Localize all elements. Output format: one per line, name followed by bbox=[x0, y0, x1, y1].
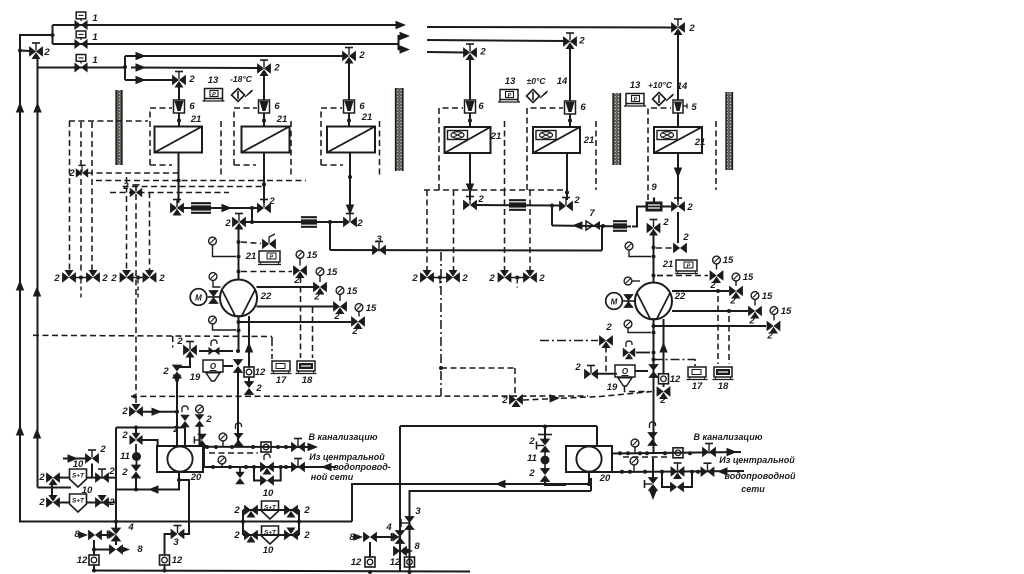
node drain r n2 bbox=[638, 451, 642, 455]
label 2 p1top bbox=[224, 218, 231, 229]
svg-text:S+T: S+T bbox=[264, 505, 277, 512]
label 2 t2b bbox=[528, 468, 535, 479]
svg-text:15: 15 bbox=[781, 306, 792, 317]
svg-text:10: 10 bbox=[263, 488, 274, 499]
node drain r n1 bbox=[626, 451, 630, 455]
dashed cross 368 bbox=[441, 367, 515, 369]
node drain r n3 bbox=[645, 451, 649, 455]
valve 2 bypass bbox=[671, 483, 684, 492]
node swr node bbox=[587, 482, 591, 486]
valve 2 city l1 bbox=[261, 454, 274, 475]
valve 2 three-way u5 bbox=[564, 33, 577, 49]
wire cross-connect riser left bbox=[329, 222, 331, 250]
valve 2 dd-rail right bbox=[600, 336, 613, 348]
separator 19 b bbox=[615, 365, 635, 386]
svg-text:Из центральной: Из центральной bbox=[309, 452, 385, 462]
gauge city left bbox=[218, 456, 226, 467]
valve 8 a left bbox=[79, 531, 102, 540]
node p1 stack n1 bbox=[237, 240, 241, 244]
svg-text:2: 2 bbox=[121, 430, 128, 441]
valve 2 three-way u4 bbox=[464, 44, 477, 60]
controller 21P p2 bbox=[675, 260, 698, 274]
node s2 n1 bbox=[241, 520, 245, 524]
wall hatch 3 bbox=[613, 93, 622, 165]
svg-text:2: 2 bbox=[729, 296, 736, 307]
svg-text:2: 2 bbox=[709, 280, 716, 291]
valve 2 makeup ctrl bbox=[510, 395, 523, 407]
svg-text:2: 2 bbox=[479, 47, 486, 58]
arrow riser A up 0 bbox=[16, 102, 24, 113]
node tank1 out node bbox=[177, 478, 181, 482]
gauge p1 top bbox=[209, 237, 236, 256]
svg-text:21: 21 bbox=[361, 112, 373, 123]
valve motor p1 bbox=[209, 291, 218, 304]
label 2 dpB2 bbox=[158, 273, 165, 284]
svg-text:водопроводной: водопроводной bbox=[725, 471, 796, 481]
svg-text:21: 21 bbox=[190, 114, 202, 125]
dashed rail rr1 bbox=[426, 190, 428, 272]
valve 2 c1b bbox=[285, 506, 298, 518]
label 2 g15e bbox=[709, 280, 716, 291]
valve small seal bbox=[209, 340, 219, 355]
node drain r n4 bbox=[663, 451, 667, 455]
wire tank1 top drop a bbox=[184, 426, 186, 446]
valve 2 drop b bbox=[194, 434, 206, 446]
svg-text:P: P bbox=[687, 264, 691, 270]
svg-text:11: 11 bbox=[120, 451, 130, 462]
svg-text:2: 2 bbox=[121, 467, 128, 478]
node drain r n0 bbox=[618, 451, 622, 455]
node city r n2 bbox=[643, 470, 647, 474]
label 2 ret u5 bbox=[573, 195, 580, 206]
svg-text:2: 2 bbox=[573, 195, 580, 206]
svg-text:2: 2 bbox=[224, 218, 231, 229]
svg-text:2: 2 bbox=[162, 366, 169, 377]
node p1 low n1 bbox=[237, 329, 241, 333]
svg-text:2: 2 bbox=[688, 23, 695, 34]
sensor 13 a bbox=[203, 89, 225, 102]
wire drop u4 bbox=[469, 59, 471, 101]
valve 2 p2 funnel bbox=[649, 365, 658, 378]
gauge 15 h bbox=[770, 307, 778, 321]
valve 4 left bbox=[108, 528, 121, 541]
wire softener left col bbox=[51, 483, 53, 497]
svg-text:12: 12 bbox=[351, 557, 362, 568]
node p1 stack n3 bbox=[237, 270, 241, 274]
node drain l n4 bbox=[276, 445, 280, 449]
wire soft water return bbox=[352, 484, 589, 522]
node blc node bbox=[92, 548, 96, 552]
wire softener row2 b bbox=[87, 502, 116, 504]
label 11 no1 bbox=[120, 451, 130, 462]
valve 2 s1a bbox=[47, 473, 60, 485]
svg-text:2: 2 bbox=[528, 436, 535, 447]
valve 2 out3 p1 bbox=[352, 317, 365, 329]
valve 2 softener feed bbox=[86, 450, 99, 463]
label 21 u1 bbox=[190, 114, 202, 125]
valve 2 pump2 suction top bbox=[647, 220, 660, 236]
label 2 s2a bbox=[38, 497, 45, 508]
softener S+T 3 bbox=[262, 501, 279, 519]
node u3 dashed node bbox=[348, 175, 352, 179]
svg-text:+10°C: +10°C bbox=[648, 80, 673, 90]
svg-text:15: 15 bbox=[762, 291, 773, 302]
wire mc-l feed bbox=[141, 408, 177, 416]
wire drop u3 bbox=[348, 62, 350, 100]
label 21P p1 bbox=[245, 251, 257, 262]
svg-text:2: 2 bbox=[682, 232, 689, 243]
valve 3 left bbox=[171, 526, 184, 539]
valve 3 a bbox=[373, 242, 386, 255]
wire drop u6 below valve bbox=[677, 212, 679, 243]
wall gap bracket bbox=[396, 32, 410, 54]
arrow branch y80 bbox=[136, 76, 147, 84]
label 15 e bbox=[723, 255, 734, 266]
gauge drain left bbox=[219, 433, 227, 447]
svg-text:8: 8 bbox=[74, 529, 80, 540]
svg-text:15: 15 bbox=[307, 250, 318, 261]
wire m-p2 bbox=[623, 300, 636, 302]
valve 8 a bbox=[354, 533, 377, 542]
control outline u5 bbox=[527, 108, 596, 190]
label 8 b bbox=[414, 541, 420, 552]
dashed bus L3 bbox=[123, 186, 264, 188]
valve 2 tank1 top b bbox=[195, 405, 203, 426]
svg-text:8: 8 bbox=[137, 544, 143, 555]
label 2 sf bbox=[99, 444, 106, 455]
wire pump2 out top bbox=[672, 290, 729, 292]
valve 1b with actuator bbox=[75, 31, 87, 48]
instrument 17 a bbox=[271, 361, 292, 374]
valve 2 return u2 bbox=[258, 200, 271, 213]
wire return header 1 bbox=[183, 207, 259, 209]
label 18 a bbox=[302, 375, 313, 386]
svg-text:2: 2 bbox=[99, 444, 106, 455]
arrow drop u6 bbox=[674, 168, 682, 179]
dash-dot to valve ddr bbox=[540, 340, 598, 342]
node t1col n2 bbox=[134, 488, 138, 492]
label 2 c2a bbox=[233, 530, 240, 541]
control outline u6 bbox=[648, 108, 716, 200]
wire return drop u1 bbox=[178, 153, 180, 204]
label 9 bbox=[651, 182, 657, 193]
valve 2 dashed L4 bbox=[130, 185, 142, 197]
dashed rail 17b bbox=[717, 296, 719, 364]
svg-text:4: 4 bbox=[385, 522, 392, 533]
svg-text:6: 6 bbox=[274, 101, 280, 112]
arrow softener feed bbox=[68, 454, 79, 462]
label 21P p2 bbox=[662, 259, 674, 270]
node u2 dashed node bbox=[262, 183, 266, 187]
valve 2 city spout bbox=[236, 468, 244, 484]
svg-text:12: 12 bbox=[77, 555, 88, 566]
wire v8a drop left bbox=[93, 540, 95, 555]
dash 21P p2 bbox=[657, 275, 675, 277]
svg-text:2: 2 bbox=[303, 530, 310, 541]
svg-text:13: 13 bbox=[208, 75, 219, 86]
svg-text:15: 15 bbox=[327, 267, 338, 278]
thermostat 0C bbox=[527, 90, 548, 103]
gauge 15 b bbox=[316, 268, 324, 282]
label 15 d bbox=[366, 303, 377, 314]
svg-text:2: 2 bbox=[38, 472, 45, 483]
svg-text:2: 2 bbox=[574, 362, 581, 373]
dash link u6 bbox=[656, 247, 672, 249]
dashed drain ctrl bbox=[209, 452, 258, 454]
node dm n1 bbox=[368, 570, 372, 574]
node mc-l node2 bbox=[175, 410, 179, 414]
node city l n2 bbox=[244, 465, 248, 469]
pump 22 no2 bbox=[635, 283, 672, 320]
wire branch junction vertical bbox=[124, 56, 126, 80]
check valve 7 bbox=[586, 221, 600, 230]
wire softener row2 a bbox=[59, 502, 69, 504]
label 15 c bbox=[347, 286, 358, 297]
svg-text:2: 2 bbox=[538, 273, 545, 284]
wire drain pair A bbox=[74, 276, 88, 300]
node drop u4 node bbox=[468, 119, 472, 123]
label 2 t1cl bbox=[121, 467, 128, 478]
air handler 21 u1 bbox=[155, 127, 203, 153]
softener S+T 2 bbox=[70, 494, 87, 512]
wire drain main bbox=[92, 571, 470, 572]
node drain l n3 bbox=[251, 445, 255, 449]
flex connector 2 bbox=[301, 217, 317, 227]
svg-text:2: 2 bbox=[205, 414, 212, 425]
svg-text:3: 3 bbox=[376, 234, 382, 245]
svg-text:сети: сети bbox=[741, 484, 765, 494]
wire return drop u5 bbox=[566, 153, 568, 200]
svg-text:1: 1 bbox=[92, 13, 97, 24]
gauge 11 no1 bbox=[132, 444, 141, 467]
wire riser sw bbox=[588, 473, 590, 484]
label 2 ret u4 bbox=[477, 194, 484, 205]
svg-text:7: 7 bbox=[589, 208, 595, 219]
valve 2 p1 stack seal bbox=[234, 423, 243, 446]
arrow header4 bbox=[572, 221, 583, 229]
arrow tank1 out bbox=[148, 485, 159, 493]
svg-text:M: M bbox=[195, 293, 202, 302]
wire m12bl drop bbox=[164, 565, 166, 571]
valve 2 return u3 bbox=[344, 214, 357, 227]
dashed rail rr4 bbox=[529, 190, 531, 272]
svg-text:18: 18 bbox=[302, 375, 313, 386]
wire tank2 feed bottom bbox=[545, 480, 566, 485]
label 2 u4 bbox=[479, 47, 486, 58]
valve 2 controller p1 bbox=[263, 234, 276, 249]
valve 2 s1b bbox=[96, 469, 109, 482]
gauge 15 g bbox=[751, 292, 759, 306]
valve 2 s2b bbox=[96, 495, 109, 507]
label 2 t1tb bbox=[205, 414, 212, 425]
gauge 15 a bbox=[296, 251, 304, 266]
gauge p2 top bbox=[625, 242, 651, 256]
wire riser B bottom corner bbox=[38, 487, 72, 489]
label 1c bbox=[92, 55, 97, 66]
node drain l n1 bbox=[214, 445, 218, 449]
label 1b bbox=[92, 32, 97, 43]
svg-text:2: 2 bbox=[528, 468, 535, 479]
wire funnel link bbox=[223, 365, 233, 367]
wire long vertical bbox=[399, 426, 401, 572]
dashed ddr down bbox=[605, 347, 607, 373]
arrow riser B up 2 bbox=[33, 428, 41, 439]
meter box drain r bbox=[673, 448, 683, 458]
wire city water right bbox=[612, 471, 744, 472]
label 12 b-left bbox=[172, 555, 183, 566]
label 2 dpD1 bbox=[488, 273, 495, 284]
valve 4 bbox=[392, 531, 405, 544]
filter 6 u3 bbox=[344, 100, 355, 113]
wire softener col below bbox=[115, 522, 117, 530]
wire drop u4 lower bbox=[469, 113, 471, 127]
wire softener row1 b bbox=[87, 477, 116, 479]
softener S+T 4 bbox=[262, 526, 279, 544]
label 15 f bbox=[743, 272, 754, 283]
dashed rail 17a bbox=[300, 277, 302, 358]
dash-dot to 17b bbox=[654, 360, 696, 367]
svg-text:17: 17 bbox=[276, 375, 287, 386]
label 14 c bbox=[677, 81, 688, 92]
svg-text:19: 19 bbox=[190, 372, 201, 383]
arrow return header 1 bbox=[222, 204, 233, 212]
valve 2 pump1 suction top bbox=[233, 214, 246, 230]
svg-text:15: 15 bbox=[723, 255, 734, 266]
wire drain collector drop bbox=[596, 426, 598, 446]
node ddm node bbox=[439, 366, 443, 370]
gauge p2 lower bbox=[624, 320, 651, 332]
valve 8 b bbox=[394, 547, 414, 556]
label 5 u6 bbox=[691, 102, 697, 113]
wire return drop u4 bbox=[469, 153, 471, 200]
wire tank1 gauge col wires bbox=[135, 428, 137, 436]
valve 2 drain pair D left bbox=[498, 270, 511, 282]
svg-text:17: 17 bbox=[692, 381, 703, 392]
label 10 s2 bbox=[82, 485, 93, 496]
tank 20 no2 bbox=[566, 446, 612, 472]
valve 2 drain l bbox=[292, 439, 305, 452]
valve 2 under meter12e bbox=[657, 387, 670, 399]
arrow riser B up 1 bbox=[33, 286, 41, 297]
label 2 out2p1 bbox=[333, 311, 340, 322]
wire pump1 out top bbox=[257, 286, 315, 288]
meter 12 b-left bbox=[160, 555, 170, 565]
wire drop u2 lower bbox=[263, 113, 265, 127]
node bpl n2 bbox=[279, 465, 283, 469]
valve 2 g15e bbox=[710, 271, 723, 283]
valve 2 dashed rail bbox=[76, 165, 88, 177]
svg-text:21: 21 bbox=[276, 114, 288, 125]
label 12 e bbox=[670, 374, 681, 385]
wire meter12e lower bbox=[663, 384, 665, 387]
valve 2 drain spout bbox=[184, 342, 197, 358]
svg-text:P: P bbox=[270, 255, 274, 261]
svg-text:1: 1 bbox=[92, 55, 97, 66]
tank1 gauge col valve top bbox=[130, 433, 142, 444]
motor M no1 bbox=[190, 289, 207, 306]
svg-text:M: M bbox=[611, 297, 618, 306]
valve 2 three-way u3 bbox=[343, 48, 356, 64]
air handler 21 u6 bbox=[654, 127, 702, 153]
label 2 f2l bbox=[574, 362, 581, 373]
dash p2 15e bbox=[657, 275, 708, 277]
valve 2 tank feed left bbox=[173, 365, 182, 378]
svg-text:6: 6 bbox=[580, 102, 586, 113]
valve 2 funnel2 left bbox=[585, 366, 598, 379]
arrow spout r bbox=[649, 491, 657, 500]
svg-text:8: 8 bbox=[349, 532, 355, 543]
label 2 g15h bbox=[766, 331, 773, 342]
valve 2 drain pair B right bbox=[143, 270, 156, 282]
node drain l n0 bbox=[205, 445, 209, 449]
node city r n0 bbox=[620, 470, 624, 474]
svg-text:14: 14 bbox=[677, 81, 688, 92]
node t1col n1 bbox=[134, 426, 138, 430]
svg-text:8: 8 bbox=[414, 541, 420, 552]
softener S+T 1 bbox=[70, 469, 87, 487]
wire return header 4 bbox=[552, 226, 631, 227]
wire riser y208-y222 bbox=[251, 208, 253, 222]
node drain l n5 bbox=[284, 445, 288, 449]
valve 2 out2 p1 bbox=[334, 302, 347, 314]
node p1 stack n2 bbox=[237, 255, 241, 259]
wire drop u1 lower bbox=[178, 113, 180, 127]
label 2 u6ret bbox=[686, 202, 693, 213]
valve 2 u6 return bbox=[672, 198, 685, 211]
label 2 u6 bbox=[688, 23, 695, 34]
arrow meter12e bbox=[659, 342, 667, 353]
svg-text:В канализацию: В канализацию bbox=[693, 432, 762, 442]
valve 2 spout r bbox=[645, 478, 658, 491]
meter 12 b bbox=[261, 442, 271, 452]
sensor 13 b bbox=[498, 90, 520, 103]
arrow drop u3 bbox=[346, 205, 354, 216]
label 19 a bbox=[190, 372, 201, 383]
valve 2 tank1 col low bbox=[132, 465, 141, 478]
svg-text:19: 19 bbox=[607, 382, 618, 393]
arrow line 1 bbox=[396, 21, 407, 29]
gauge 15 f bbox=[732, 273, 740, 286]
label 2 g15f bbox=[729, 296, 736, 307]
node t2 feed node bbox=[543, 425, 547, 429]
dash-dot to 17a bbox=[271, 337, 273, 359]
flex connector 4 bbox=[613, 221, 627, 231]
svg-text:2: 2 bbox=[121, 406, 128, 417]
valve motor p2 bbox=[624, 295, 633, 308]
node drop u2 node bbox=[262, 119, 266, 123]
label 2 drail bbox=[68, 168, 75, 179]
svg-text:10: 10 bbox=[82, 485, 93, 496]
label 1a bbox=[92, 13, 97, 24]
svg-text:2: 2 bbox=[748, 316, 755, 327]
node drop u3 node bbox=[347, 119, 351, 123]
valve 2 c2b bbox=[285, 528, 298, 540]
label 8 b left bbox=[137, 544, 143, 555]
svg-text:±0°C: ±0°C bbox=[527, 76, 547, 86]
arrow city r bbox=[717, 467, 728, 475]
valve 2 s2a bbox=[47, 495, 60, 507]
svg-text:12: 12 bbox=[255, 367, 266, 378]
valve 2 tank2 a bbox=[537, 435, 553, 453]
label 21 u6 bbox=[694, 137, 706, 148]
label 15 h bbox=[781, 306, 792, 317]
gauge p1 mid bbox=[209, 273, 220, 287]
wire drop u6 bbox=[677, 33, 679, 100]
wire supply line 1 right bbox=[427, 26, 672, 29]
label 2 ddr bbox=[605, 322, 612, 333]
svg-text:S+T: S+T bbox=[72, 473, 85, 480]
valve 2 three-way u1 bbox=[173, 72, 186, 88]
